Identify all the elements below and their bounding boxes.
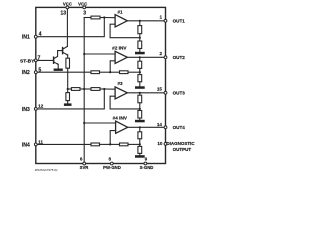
svg-text:3: 3 bbox=[83, 10, 86, 16]
ground A3 divider bbox=[135, 120, 145, 123]
svg-text:#4 INV: #4 INV bbox=[113, 116, 128, 121]
svg-text:M94TDA7375-01: M94TDA7375-01 bbox=[35, 168, 58, 172]
wire IN1 to riser bbox=[36, 18, 105, 37]
junction SVR bus to amp3 bias bbox=[83, 88, 85, 90]
pin 9 S-GND node bbox=[144, 162, 147, 165]
wire amp2 bias input from bus bbox=[84, 53, 115, 55]
ground A4 divider bbox=[135, 155, 145, 158]
svg-text:PW-GND: PW-GND bbox=[103, 165, 121, 170]
resistor divider A2 upper bbox=[139, 57, 141, 61]
svg-text:#1: #1 bbox=[117, 9, 123, 14]
resistor divider A4 lower bbox=[138, 146, 142, 153]
junction amp4 divider mid node bbox=[139, 143, 141, 145]
svg-text:10: 10 bbox=[157, 141, 163, 146]
wire bias rail to amp3 line bbox=[68, 88, 72, 90]
junction OUT3 divider tap bbox=[139, 92, 141, 94]
pin 12 IN3 node bbox=[34, 108, 37, 111]
junction amp1 feedback node bbox=[139, 37, 141, 39]
pin 4 IN1 node bbox=[34, 35, 37, 38]
pin node circles bbox=[34, 6, 167, 165]
pin 2 OUT2 node bbox=[164, 56, 167, 59]
svg-text:IN3: IN3 bbox=[22, 107, 30, 113]
op-amp A2 bbox=[115, 51, 127, 63]
wire amp1 output to OUT1 bbox=[127, 20, 165, 22]
op-amp A4 bbox=[116, 121, 128, 133]
resistor bias amp3 bbox=[91, 88, 100, 91]
resistor divider A3 lower bbox=[138, 111, 142, 119]
svg-text:4: 4 bbox=[39, 32, 42, 38]
junction OUT4 divider tap bbox=[139, 126, 141, 128]
junction amp2 inverting input node bbox=[109, 71, 111, 73]
junction amp3 feedback node bbox=[139, 108, 141, 110]
junction amp4 inverting input node bbox=[109, 143, 111, 145]
svg-text:IN4: IN4 bbox=[22, 142, 30, 148]
wire amp3 output to OUT3 bbox=[127, 92, 165, 94]
resistor IN4 input bbox=[91, 143, 100, 146]
transistor Q2 (ST-BY switch) bbox=[62, 48, 64, 54]
wire amp2 output to OUT2 bbox=[127, 56, 165, 58]
svg-text:#3: #3 bbox=[117, 81, 123, 86]
svg-text:2: 2 bbox=[159, 51, 162, 56]
wire feedback amp3 bbox=[110, 96, 140, 109]
svg-text:11: 11 bbox=[38, 140, 43, 146]
resistor divider A2 lower bbox=[138, 75, 142, 82]
resistor st-by to bus bbox=[71, 88, 80, 91]
wire feedback amp1 bbox=[110, 24, 140, 38]
pin 8 PW-GND node bbox=[110, 162, 113, 165]
svg-text:9: 9 bbox=[145, 157, 148, 162]
svg-text:OUT2: OUT2 bbox=[173, 55, 186, 60]
ground A2 divider bbox=[135, 86, 145, 89]
pin 15 OUT3 node bbox=[164, 91, 167, 94]
junction OUT1 divider tap bbox=[139, 20, 141, 22]
junction amp2 divider mid node bbox=[139, 71, 141, 73]
wire SVR bus vertical bbox=[84, 18, 104, 164]
resistor Q2 chain lower bbox=[66, 93, 70, 101]
resistor divider A4 upper bbox=[139, 127, 141, 132]
svg-text:5: 5 bbox=[38, 67, 41, 73]
wire amp4 bias input from bus bbox=[84, 122, 115, 124]
junction OUT2 divider tap bbox=[139, 56, 141, 58]
wire VCC pin13 vertical (Q2 collector line) bbox=[66, 7, 68, 46]
svg-text:1: 1 bbox=[159, 15, 162, 20]
junction amp1 noninv input node bbox=[103, 16, 105, 18]
wire IN4 chain bbox=[36, 143, 91, 145]
svg-text:OUT4: OUT4 bbox=[173, 125, 186, 130]
pin 10 diagnostic output node bbox=[164, 143, 167, 146]
svg-text:14: 14 bbox=[157, 122, 163, 127]
resistor divider A1 lower bbox=[138, 41, 142, 49]
svg-text:15: 15 bbox=[157, 86, 163, 91]
wire amp4 output to OUT4 bbox=[128, 126, 166, 128]
svg-text:S-GND: S-GND bbox=[140, 165, 154, 170]
resistor bias amp1 bbox=[100, 17, 104, 19]
resistor IN2 to divider bbox=[110, 71, 119, 73]
op-amp A3 bbox=[115, 87, 127, 99]
junction st-by chain to bias line bbox=[67, 88, 69, 90]
pin 11 IN4 node bbox=[34, 143, 37, 146]
wire amp1 input bbox=[104, 17, 115, 19]
svg-text:12: 12 bbox=[38, 103, 44, 109]
ground A1 divider bbox=[135, 52, 145, 55]
svg-text:#2 INV: #2 INV bbox=[112, 46, 127, 51]
wire amp2 inverting riser bbox=[110, 61, 115, 72]
pin 14 OUT4 node bbox=[164, 126, 167, 129]
pin 1 OUT1 node bbox=[164, 19, 167, 22]
pin 5 IN2 node bbox=[34, 71, 37, 74]
ground Q2 chain bbox=[64, 103, 72, 106]
svg-text:6: 6 bbox=[80, 156, 83, 161]
wire amp4 inverting riser bbox=[110, 131, 115, 145]
svg-text:IN2: IN2 bbox=[22, 70, 30, 76]
pin 13 VCC node bbox=[66, 6, 69, 9]
svg-text:8: 8 bbox=[108, 156, 111, 161]
resistor divider A3 upper bbox=[139, 93, 141, 95]
junction amp3 noninv input node bbox=[103, 88, 105, 90]
IC boundary box bbox=[36, 7, 166, 163]
junction SVR bus to amp4 bias bbox=[83, 122, 85, 124]
svg-text:VCC: VCC bbox=[63, 1, 72, 6]
op-amp A1 bbox=[115, 15, 127, 27]
svg-text:VCC: VCC bbox=[78, 1, 87, 6]
junction dots bbox=[67, 16, 141, 145]
resistor IN2 input bbox=[91, 71, 100, 74]
svg-text:OUTPUT: OUTPUT bbox=[173, 147, 192, 152]
svg-text:ST-BY: ST-BY bbox=[20, 58, 35, 64]
resistor Q2 emitter bbox=[66, 58, 70, 68]
svg-text:7: 7 bbox=[38, 55, 41, 61]
wire IN2 chain bbox=[36, 71, 91, 73]
svg-text:13: 13 bbox=[60, 10, 66, 16]
pin 3 VCC node bbox=[83, 6, 86, 9]
svg-text:OUT1: OUT1 bbox=[173, 19, 186, 24]
svg-text:DIAGNOSTIC: DIAGNOSTIC bbox=[166, 141, 195, 146]
resistor divider A1 upper bbox=[139, 21, 141, 26]
svg-text:SVR: SVR bbox=[80, 165, 90, 170]
resistor IN4 to divider bbox=[110, 143, 119, 145]
transistor Q1 (ST-BY input) bbox=[36, 59, 54, 61]
junction SVR bus to amp2 bias bbox=[83, 53, 85, 55]
pin 6 SVR node bbox=[83, 162, 86, 165]
pin 7 ST-BY node bbox=[34, 59, 37, 62]
wire amp3 input bbox=[104, 88, 115, 90]
wire IN3 to riser bbox=[36, 89, 105, 109]
svg-text:IN1: IN1 bbox=[22, 35, 30, 41]
ground Q1 bbox=[54, 69, 63, 71]
svg-text:OUT3: OUT3 bbox=[173, 91, 186, 96]
